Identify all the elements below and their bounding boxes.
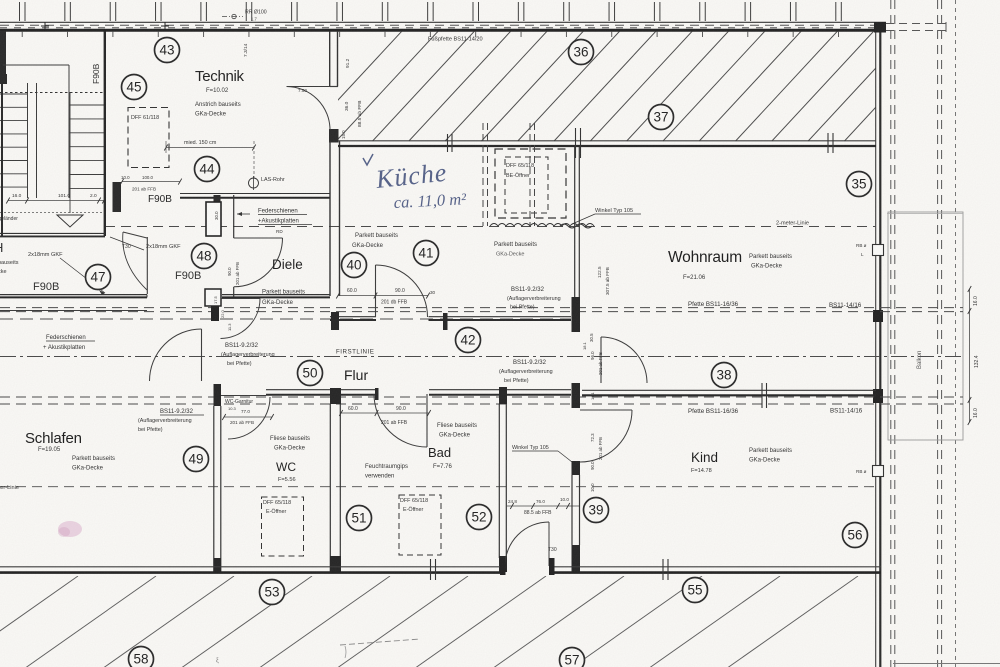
south pfette dashed pair <box>0 396 963 398</box>
passage dimension line <box>122 181 180 183</box>
extra dashed line left <box>0 318 571 320</box>
small room top wall <box>507 389 571 391</box>
left edge dark block <box>0 31 6 78</box>
Kueche bottom wall with door <box>330 316 376 318</box>
position circle 38 <box>712 363 737 388</box>
WC right wall / Bad left wall <box>330 388 341 404</box>
Bad right wall <box>499 387 507 404</box>
stair direction triangle <box>57 215 83 227</box>
door bottom room arc <box>505 522 549 566</box>
LAS-Rohr symbol <box>249 178 259 188</box>
DFF window dashed rect Kueche <box>495 149 566 218</box>
Firstlinie dash-dot <box>0 356 963 358</box>
pink smudge <box>58 521 82 537</box>
RB marker block upper <box>873 245 884 256</box>
door WC arc <box>228 397 270 439</box>
position circle 39 <box>584 498 609 523</box>
door Diele: leaf <box>234 237 283 239</box>
Kueche handwritten label <box>363 154 468 212</box>
Kueche door dimension <box>338 295 428 297</box>
position circle 55 <box>683 578 708 603</box>
stair left flight treads <box>0 93 27 95</box>
balcony dimension chain <box>969 289 971 422</box>
position circle 41 <box>414 241 439 266</box>
position circle 51 <box>347 506 372 531</box>
top outer wall band <box>0 21 886 23</box>
divider wall black block <box>572 297 581 332</box>
stair dimension line <box>8 200 104 202</box>
Diele left thin wall <box>233 195 235 238</box>
pillar black 2 <box>211 306 219 321</box>
Bad door dims <box>341 412 429 414</box>
position circle 57 <box>560 648 585 667</box>
position circle 52 <box>467 505 492 530</box>
stair walk line <box>69 92 71 213</box>
Bad top wall + door <box>341 389 377 391</box>
stair right flight treads <box>69 104 104 106</box>
rafter axis ticks above top band <box>19 2 21 21</box>
pillar white with border <box>206 202 221 236</box>
position circle 42 <box>456 328 481 353</box>
door Technik: swing arc <box>287 87 331 131</box>
door Flur north: leaf + arc <box>600 337 602 383</box>
right wall block at south pfette <box>873 389 883 403</box>
door jamb block below Technik door <box>329 129 339 143</box>
ticks crossing bottom wall <box>430 559 432 580</box>
position circle 47 <box>86 265 111 290</box>
balcony outline <box>888 212 963 440</box>
position circle 35 <box>847 172 872 197</box>
RB marker block lower <box>873 466 884 477</box>
wall tick pair on top wall <box>447 134 449 152</box>
position circle 37 <box>649 105 674 130</box>
wavy insulation line below window <box>490 224 594 227</box>
right outer wall <box>875 31 877 667</box>
wall junction bar above pillar <box>214 195 221 203</box>
position circle 45 <box>122 75 147 100</box>
small room dims <box>507 505 580 507</box>
plus marks on band <box>41 25 49 27</box>
north pfette dashed pair <box>0 307 963 309</box>
top band dashed continuation right <box>886 23 946 25</box>
WC left wall <box>214 384 222 406</box>
faint line bottom right <box>893 663 1000 665</box>
WC window dashed rect <box>262 497 304 556</box>
Kueche left wall (down from Technik door) <box>329 141 331 296</box>
dashed ticks wall top at divider <box>575 128 577 158</box>
position circle 49 <box>184 447 209 472</box>
position circle 48 <box>192 244 217 269</box>
tick pair kind wall <box>761 383 763 408</box>
door Kueche: swing arc <box>376 265 428 317</box>
pillar white 2 <box>205 289 221 306</box>
WC top wall thick part <box>266 389 338 391</box>
2-meter line north (dashed) <box>105 226 876 228</box>
position circle 56 <box>843 523 868 548</box>
door Bad: swing arc <box>374 394 427 447</box>
position circle 50 <box>298 361 323 386</box>
Technik/Diele horizontal wall (F90B) <box>180 193 330 195</box>
right wall block at north pfette <box>873 310 883 322</box>
door Diele: swing arc <box>234 238 283 287</box>
door Kueche: leaf <box>375 265 377 317</box>
door Bad: leaf <box>426 394 428 447</box>
Technik right wall upper (with door opening) <box>329 31 331 87</box>
pencil scribble bottom <box>340 639 420 645</box>
door Technik: leaf <box>287 86 339 88</box>
Bad window dashed rect <box>399 495 441 555</box>
corridor bottom wall (F90B) <box>0 294 147 296</box>
stair landing rail <box>3 64 69 66</box>
left edge wall <box>1 31 3 236</box>
2-meter line south (dashed) <box>0 486 876 488</box>
Kueche/Wohnraum divider wall <box>574 147 576 298</box>
position circle 43 <box>155 38 180 63</box>
dashed vertical line far right <box>955 0 957 667</box>
stair cut dotted line <box>0 92 104 94</box>
WC top wall thin + door <box>221 395 266 397</box>
RR vent label on band <box>222 16 243 18</box>
divider black blocks + door gaps <box>572 383 581 408</box>
door WC corridor: leaf + arc <box>221 298 260 300</box>
wall start black bar at stair wall <box>113 182 122 212</box>
position circle 40 <box>342 253 367 278</box>
position circle 36 <box>569 40 594 65</box>
stair right wall <box>104 31 106 236</box>
door Schlafen: leaf + arc <box>201 329 203 381</box>
dashed vertical axis pair near right wall <box>890 0 892 667</box>
position circle 44 <box>195 157 220 182</box>
position circle 58 <box>129 647 154 667</box>
dashed vertical axis pair balcony <box>937 0 939 667</box>
stair stringers <box>27 83 29 198</box>
bottom outer wall <box>0 566 505 568</box>
door Kind: leaf + arc <box>580 409 632 411</box>
Kueche top wall <box>338 140 876 142</box>
dashed verticals through roof window <box>482 123 484 226</box>
position circle 53 <box>260 580 285 605</box>
stair bottom wall <box>0 232 105 234</box>
DFF window dashed rect in hall <box>128 108 169 168</box>
door corridor (T30): jamb, tilted leaf, arc <box>146 237 148 294</box>
Kind top wall <box>582 389 876 391</box>
